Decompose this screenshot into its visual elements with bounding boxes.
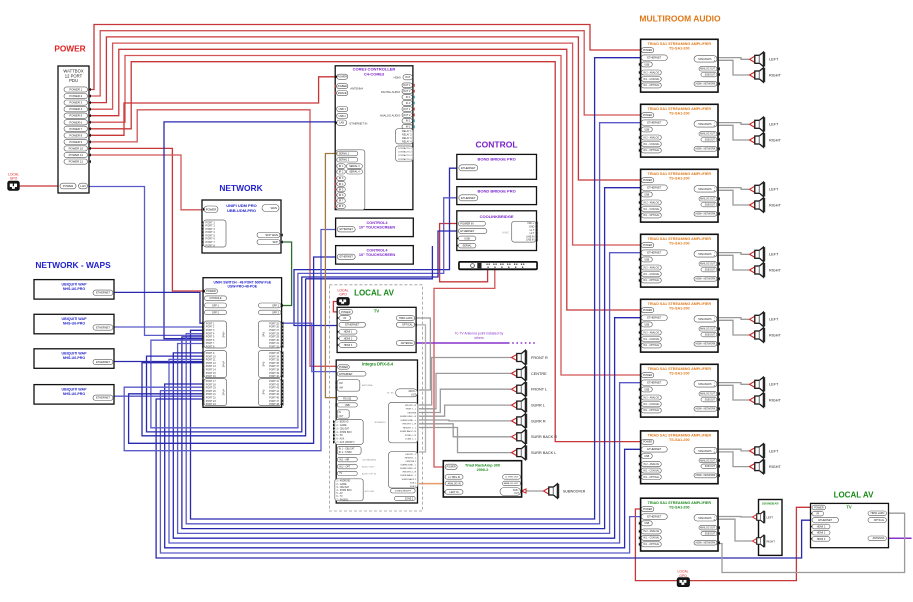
svg-text:TRIAD SA1 STREAMING AMPLIFIER: TRIAD SA1 STREAMING AMPLIFIER — [648, 501, 712, 505]
svg-text:HDMI 1: HDMI 1 — [344, 331, 353, 334]
wire power WattBox port 6 to amp 6 — [88, 56, 641, 376]
svg-text:3 - CBL/SAT: 3 - CBL/SAT — [336, 486, 349, 489]
wire speaker amp 8 to soundbar right — [718, 519, 752, 541]
svg-text:UBIQUITI WAP: UBIQUITI WAP — [62, 282, 88, 286]
wire network switch to amp 1 ethernet — [191, 58, 641, 519]
svg-text:ETHERNET: ETHERNET — [96, 325, 110, 329]
svg-text:SPEAKERS: SPEAKERS — [698, 58, 712, 61]
svg-text:IN 1 - OPTICAL: IN 1 - OPTICAL — [643, 409, 660, 412]
wire speaker Integra to FRONT R — [419, 358, 511, 406]
svg-text:HDMI - NETWORK: HDMI - NETWORK — [696, 344, 716, 346]
svg-text:IR 7: IR 7 — [339, 200, 344, 203]
svg-text:IN 1 - OPTICAL: IN 1 - OPTICAL — [643, 149, 660, 152]
svg-text:SOUNDBAR: SOUNDBAR — [762, 502, 780, 506]
svg-text:POWER 11: POWER 11 — [69, 153, 84, 157]
wire speaker Integra to SURR L — [419, 405, 511, 416]
svg-text:NETWORK - WAPS: NETWORK - WAPS — [35, 260, 111, 270]
svg-text:TRIAD SA1 STREAMING AMPLIFIER: TRIAD SA1 STREAMING AMPLIFIER — [648, 367, 712, 371]
svg-text:5 - PC: 5 - PC — [336, 435, 343, 437]
svg-text:FM: FM — [339, 382, 342, 385]
svg-text:AUDIO ONLY: AUDIO ONLY — [362, 466, 375, 469]
svg-text:IR 4: IR 4 — [339, 183, 344, 186]
svg-text:OUT 1: OUT 1 — [403, 108, 411, 111]
wire speaker amp 6 right — [718, 385, 749, 400]
svg-text:HDMI - NETWORK: HDMI - NETWORK — [696, 84, 716, 86]
amplifier Triad TS-SA1-200 number 1 — [641, 39, 718, 92]
svg-text:PoE: PoE — [262, 390, 266, 395]
wire network WAP 2 to switch — [113, 326, 204, 328]
svg-text:IN 1 - COAXIAL: IN 1 - COAXIAL — [643, 273, 660, 276]
wire network switch to amp 5 ethernet — [173, 318, 640, 539]
Integra zone out — [394, 496, 415, 500]
svg-text:HDMI 1: HDMI 1 — [817, 525, 826, 528]
wire network switch to amp 6 ethernet — [169, 359, 641, 543]
speaker amp 5 LEFT — [750, 312, 766, 326]
wire power WattBox port 9 to Integra receiver — [88, 110, 338, 367]
svg-text:GPO: GPO — [679, 574, 687, 578]
svg-text:SUB OUT: SUB OUT — [705, 533, 716, 535]
svg-text:TS-SA1-200: TS-SA1-200 — [669, 371, 690, 375]
svg-text:2 - GAME: 2 - GAME — [336, 424, 347, 427]
svg-text:2000-2: 2000-2 — [477, 468, 489, 472]
svg-text:CBL/SAT(AES): CBL/SAT(AES) — [362, 459, 376, 462]
wire speaker Integra to SURR R — [419, 419, 511, 422]
svg-text:others: others — [474, 336, 484, 340]
svg-text:TV: TV — [339, 473, 342, 475]
svg-text:LAN: LAN — [80, 184, 85, 188]
amplifier Triad TS-SA1-200 number 4 — [641, 234, 718, 287]
svg-text:ANALOG OUT: ANALOG OUT — [700, 263, 716, 266]
svg-text:IN 1 - AIR: IN 1 - AIR — [339, 458, 349, 461]
svg-text:OUT 1: OUT 1 — [403, 84, 411, 87]
svg-text:HVAC: HVAC — [503, 232, 510, 235]
svg-text:IR 6: IR 6 — [339, 194, 344, 197]
svg-text:USB: USB — [644, 522, 649, 525]
svg-text:ZONE 2: ZONE 2 — [405, 498, 414, 500]
svg-text:Integra DRX-8.4: Integra DRX-8.4 — [362, 362, 394, 367]
svg-text:PORT 24: PORT 24 — [206, 403, 217, 406]
svg-text:1 - ANDROID: 1 - ANDROID — [336, 480, 350, 483]
svg-text:AUDIO OPT IN: AUDIO OPT IN — [362, 472, 377, 475]
wire serial Core3 to Integra RS-232 — [325, 154, 337, 398]
wire speaker amp 2 right — [718, 125, 749, 140]
svg-text:HEIGHT 1 - R: HEIGHT 1 - R — [403, 424, 417, 426]
svg-text:ETHERNET: ETHERNET — [647, 381, 661, 385]
svg-text:POWER 9: POWER 9 — [69, 140, 82, 144]
svg-text:PORT 8: PORT 8 — [206, 346, 215, 349]
svg-text:CONTACTS 4: CONTACTS 4 — [398, 158, 412, 161]
svg-text:HDMI 2: HDMI 2 — [344, 337, 353, 340]
svg-text:FRONT L: FRONT L — [531, 388, 547, 392]
wire power Local GPO to WattBox — [19, 185, 60, 187]
svg-text:SUB OUT: SUB OUT — [705, 466, 716, 468]
svg-text:SUB OUT: SUB OUT — [705, 205, 716, 207]
switch port block right 41-48 — [259, 379, 282, 406]
svg-text:RELAY 1: RELAY 1 — [402, 130, 412, 133]
wire power Local GPO to TV — [333, 302, 339, 312]
svg-text:TV: TV — [846, 505, 852, 510]
svg-text:LOCAL AV: LOCAL AV — [354, 289, 395, 298]
svg-text:ETHERNET: ETHERNET — [647, 56, 661, 60]
svg-text:+PoE: +PoE — [222, 331, 226, 338]
svg-text:AUX LINE: AUX LINE — [365, 490, 375, 493]
svg-text:POWER 7: POWER 7 — [69, 127, 82, 131]
svg-text:ETHERNET: ETHERNET — [647, 251, 661, 255]
svg-text:OUT: OUT — [411, 393, 417, 396]
svg-text:SUB -: SUB - — [513, 490, 519, 492]
svg-text:HDMI: HDMI — [394, 76, 401, 80]
svg-text:BOND BRIDGE PRO: BOND BRIDGE PRO — [477, 189, 515, 194]
Integra height out pill — [391, 489, 416, 493]
switch port block right 33-40 — [259, 351, 282, 378]
svg-text:HDMI - NETWORK: HDMI - NETWORK — [696, 279, 716, 281]
svg-text:SUB OUT: SUB OUT — [705, 270, 716, 272]
svg-text:PoE: PoE — [262, 362, 266, 367]
wire power WattBox port 11 to router — [88, 155, 205, 210]
speaker FRONT L — [512, 382, 528, 396]
TV middle Local AV — [337, 307, 416, 352]
svg-text:SFP: SFP — [273, 240, 279, 244]
svg-text:SUB 1: SUB 1 — [410, 482, 417, 484]
svg-text:ANTENNA: ANTENNA — [401, 342, 413, 345]
svg-text:IR 1: IR 1 — [339, 165, 344, 168]
svg-text:WAN: WAN — [271, 206, 277, 210]
wire power WattBox port 4 to amp 4 — [88, 43, 641, 245]
svg-text:GPO: GPO — [339, 292, 347, 296]
svg-text:SPEAKERS: SPEAKERS — [698, 450, 712, 453]
wire speaker amp 4 left — [718, 253, 749, 255]
svg-text:SPEAKERS: SPEAKERS — [698, 318, 712, 321]
wire power Local GPO to TV bottom-right — [689, 507, 811, 580]
wire HDMI eARC TV bottom-right to amp 8 — [718, 513, 905, 572]
svg-text:IN 1: IN 1 — [406, 120, 411, 123]
svg-text:OPTICAL: OPTICAL — [874, 519, 885, 522]
svg-text:HEIGHT 2 - R: HEIGHT 2 - R — [403, 472, 417, 474]
wire HDMI ARC TV to Integra main out — [415, 318, 430, 390]
svg-text:FRONT - R: FRONT - R — [405, 405, 416, 407]
svg-text:SURROUND - L: SURROUND - L — [400, 420, 417, 422]
speaker amp 3 RIGHT — [750, 198, 766, 212]
svg-text:6 - TV: 6 - TV — [336, 496, 343, 498]
svg-text:PORT 16: PORT 16 — [206, 375, 217, 378]
svg-text:TRIAD SA1 STREAMING AMPLIFIER: TRIAD SA1 STREAMING AMPLIFIER — [648, 302, 712, 306]
svg-text:HDMI - NETWORK: HDMI - NETWORK — [696, 475, 716, 477]
svg-text:POWER: POWER — [206, 290, 216, 293]
svg-text:+PoE: +PoE — [222, 389, 226, 396]
svg-text:IN 2 - ANALOG: IN 2 - ANALOG — [643, 396, 659, 399]
svg-text:SFP 2: SFP 2 — [272, 311, 280, 314]
svg-text:RIGHT: RIGHT — [769, 138, 781, 142]
svg-text:RIGHT: RIGHT — [769, 333, 781, 337]
svg-text:IN 2 - ANALOG: IN 2 - ANALOG — [643, 331, 659, 334]
svg-text:IR: IR — [817, 513, 820, 516]
speaker SURR R — [512, 414, 528, 428]
svg-text:CONTROL4: CONTROL4 — [367, 249, 389, 253]
svg-text:RIGHT: RIGHT — [767, 539, 776, 543]
svg-text:2 - GAME: 2 - GAME — [336, 483, 347, 486]
svg-text:TS-SA1-200: TS-SA1-200 — [669, 505, 690, 509]
svg-text:ETHERNET: ETHERNET — [339, 256, 353, 259]
wire speaker amp 7 right — [718, 452, 749, 467]
svg-text:USB: USB — [644, 63, 649, 66]
wire optical TV to Integra — [415, 325, 426, 452]
Integra analog input block — [335, 479, 363, 501]
svg-text:IN 1 - OPTICAL: IN 1 - OPTICAL — [643, 279, 660, 282]
Control4 touchscreen 2 — [336, 246, 414, 265]
svg-text:SURR BACK 2: SURR BACK 2 — [402, 478, 417, 481]
receiver Integra DRX 8.4 — [336, 360, 417, 503]
svg-text:POWER: POWER — [643, 179, 652, 182]
svg-text:POWER IN: POWER IN — [460, 222, 473, 226]
wire speaker amp 5 left — [718, 318, 749, 320]
svg-text:5 - AV: 5 - AV — [336, 492, 343, 495]
speaker amp 2 LEFT — [750, 117, 766, 131]
svg-text:SFP 2: SFP 2 — [212, 311, 220, 314]
wire power strip outlet to Triad RackAmp — [434, 268, 495, 467]
dashed border LOCAL AV — [329, 285, 422, 511]
speaker amp 2 RIGHT — [750, 133, 766, 147]
wire power WattBox port 3 to amp 3 — [88, 37, 641, 180]
svg-text:IN 2 - STRM: IN 2 - STRM — [339, 452, 352, 454]
svg-text:7 - PHONO: 7 - PHONO — [336, 499, 348, 501]
svg-text:POWER 10: POWER 10 — [69, 147, 84, 151]
svg-text:ANALOG OUT: ANALOG OUT — [700, 527, 716, 530]
svg-text:POWER: POWER — [643, 374, 652, 377]
svg-text:LEFT: LEFT — [769, 449, 779, 453]
speaker amp 7 LEFT — [750, 444, 766, 458]
wire network CooLinkBridge to switch — [147, 231, 459, 432]
svg-text:OUT: OUT — [514, 493, 519, 495]
svg-text:IN 2: IN 2 — [406, 126, 411, 129]
wire power strip outlet to CooLinkBridge — [440, 224, 488, 282]
svg-text:SURROUND - R: SURROUND - R — [400, 468, 417, 470]
svg-text:USB 2: USB 2 — [339, 115, 347, 118]
svg-text:IN 1 - CBL/SAT: IN 1 - CBL/SAT — [339, 448, 355, 451]
switch port block right 25-32 — [259, 321, 282, 348]
svg-text:UBIQUITI WAP: UBIQUITI WAP — [62, 317, 88, 321]
Bond Bridge Pro 2 — [457, 187, 537, 205]
wire network switch to amp 7 ethernet — [165, 384, 641, 548]
svg-text:ZONE2-HEIGHT: ZONE2-HEIGHT — [395, 491, 412, 493]
svg-text:TV: TV — [374, 309, 380, 314]
svg-text:SUB 2: SUB 2 — [410, 486, 417, 488]
svg-text:OPTICAL: OPTICAL — [402, 324, 413, 327]
svg-text:RIGHT: RIGHT — [769, 268, 781, 272]
svg-text:SPEAKERS: SPEAKERS — [374, 421, 386, 424]
svg-text:IN 1 - OPTICAL: IN 1 - OPTICAL — [643, 543, 660, 546]
wire power WattBox port 10 to switch — [88, 148, 205, 291]
svg-text:IN 1 - COAXIAL: IN 1 - COAXIAL — [643, 403, 660, 406]
svg-text:IN 1 - OPTICAL: IN 1 - OPTICAL — [643, 344, 660, 347]
wire network switch to TV bottom-right ethernet — [156, 399, 811, 558]
Integra HDMI input block — [335, 420, 363, 445]
svg-text:ETHERNET: ETHERNET — [461, 166, 476, 170]
svg-text:POWER: POWER — [63, 184, 74, 188]
svg-text:POWER: POWER — [341, 311, 351, 314]
svg-text:POWER 2: POWER 2 — [69, 94, 82, 98]
svg-text:ZIGBEE: ZIGBEE — [338, 85, 348, 88]
wire network switch to amp 2 ethernet — [186, 123, 640, 524]
svg-text:OUT: OUT — [405, 76, 411, 79]
svg-text:ANTENNA: ANTENNA — [362, 384, 373, 387]
svg-text:RIGHT: RIGHT — [769, 73, 781, 77]
svg-text:IN 1: IN 1 — [406, 96, 411, 99]
svg-text:SPEAKERS: SPEAKERS — [698, 517, 712, 520]
svg-text:TS-SA1-200: TS-SA1-200 — [669, 46, 690, 50]
switch port block left 9-16 — [204, 351, 227, 378]
rack power strip — [459, 262, 537, 269]
svg-text:COAX 1 - L: COAX 1 - L — [405, 438, 417, 441]
svg-text:10" TOUCHSCREEN: 10" TOUCHSCREEN — [359, 253, 396, 257]
speaker CENTRE — [512, 366, 528, 380]
wire speaker Integra to FRONT L — [419, 389, 511, 412]
svg-text:IN 2 - ANALOG: IN 2 - ANALOG — [643, 201, 659, 204]
svg-text:IN 2 - ANALOG: IN 2 - ANALOG — [643, 71, 659, 74]
svg-text:GPO: GPO — [10, 177, 18, 181]
svg-text:SUB OUT: SUB OUT — [705, 140, 716, 142]
svg-text:L1 TRIG OUT: L1 TRIG OUT — [505, 477, 519, 479]
wire network switch to amp 4 ethernet — [178, 253, 641, 534]
speaker amp 6 LEFT — [750, 377, 766, 391]
svg-text:POWER 12: POWER 12 — [69, 160, 84, 164]
svg-text:RIGHT: RIGHT — [769, 398, 781, 402]
wire network touchscreen 1 to switch — [124, 230, 337, 451]
speaker amp 1 RIGHT — [750, 68, 766, 82]
svg-text:LEFT: LEFT — [769, 253, 779, 257]
WAP 1 Ubiquiti access point — [34, 280, 114, 300]
svg-text:LEFT: LEFT — [769, 58, 779, 62]
TV bottom-right Local AV — [811, 503, 889, 547]
svg-text:PORT 40: PORT 40 — [269, 375, 280, 378]
svg-text:SUBWOOFER: SUBWOOFER — [563, 489, 586, 493]
svg-text:SURROUND - R: SURROUND - R — [400, 416, 417, 418]
svg-text:HDMI - NETWORK: HDMI - NETWORK — [696, 543, 716, 545]
svg-text:NHS-U6-PRO: NHS-U6-PRO — [63, 356, 86, 360]
svg-text:TRIAD SA1 STREAMING AMPLIFIER: TRIAD SA1 STREAMING AMPLIFIER — [648, 107, 712, 111]
wire power WattBox port 1 to amp 1 — [88, 25, 641, 90]
svg-text:USB: USB — [464, 236, 470, 240]
svg-text:3 - CBL/SAT: 3 - CBL/SAT — [336, 427, 349, 430]
svg-text:LINE IN: LINE IN — [526, 239, 535, 242]
svg-text:IN 1 - OPTICAL: IN 1 - OPTICAL — [643, 84, 660, 87]
svg-text:CONSOLE: CONSOLE — [209, 297, 222, 300]
svg-text:ETHERNET: ETHERNET — [339, 373, 353, 376]
svg-text:ANALOG OUT: ANALOG OUT — [700, 393, 716, 396]
wire network Core3 LAN to switch port — [164, 122, 337, 339]
svg-text:ETHERNET: ETHERNET — [345, 323, 359, 327]
svg-text:POWER: POWER — [206, 207, 217, 211]
svg-text:LEFT IN: LEFT IN — [450, 491, 459, 494]
svg-text:ZWAVE: ZWAVE — [338, 92, 347, 95]
svg-text:POWER: POWER — [643, 441, 652, 444]
svg-text:TS-SA1-200: TS-SA1-200 — [669, 176, 690, 180]
svg-text:SURR BACK L: SURR BACK L — [531, 451, 556, 455]
speaker amp 3 LEFT — [750, 182, 766, 196]
svg-text:SERIAL 1: SERIAL 1 — [339, 152, 350, 155]
svg-text:TS-SA1-200: TS-SA1-200 — [669, 306, 690, 310]
svg-text:USB: USB — [644, 323, 649, 326]
svg-text:SPEAKERS: SPEAKERS — [698, 123, 712, 126]
wire speaker amp 3 right — [718, 190, 749, 205]
svg-text:ETHERNET IN: ETHERNET IN — [350, 121, 368, 125]
svg-text:IR 8: IR 8 — [339, 205, 344, 208]
svg-text:ETHERNET: ETHERNET — [460, 229, 474, 233]
svg-text:POWER 3: POWER 3 — [69, 101, 82, 105]
svg-text:SERIAL: SERIAL — [462, 244, 472, 248]
svg-text:ETHERNET: ETHERNET — [647, 447, 661, 451]
speaker amp 1 LEFT — [750, 52, 766, 66]
svg-text:USB: USB — [644, 455, 649, 458]
svg-text:HDMI - NETWORK: HDMI - NETWORK — [696, 214, 716, 216]
wire antenna TV to TV antenna point — [415, 342, 508, 344]
wire power Local GPO to amp 8 — [635, 509, 677, 581]
svg-text:TRIAD SA1 STREAMING AMPLIFIER: TRIAD SA1 STREAMING AMPLIFIER — [648, 42, 712, 46]
svg-text:TS-SA1-200: TS-SA1-200 — [669, 111, 690, 115]
WattBox 12 Port PDU — [58, 66, 89, 193]
speaker SURR BACK L — [512, 445, 528, 459]
svg-text:HDMI 3: HDMI 3 — [344, 344, 353, 347]
Core3 contacts block — [396, 146, 413, 161]
svg-text:UBB-UDM-PRO: UBB-UDM-PRO — [227, 208, 256, 213]
svg-text:CONTROL4: CONTROL4 — [367, 221, 389, 225]
amplifier Triad TS-SA1-200 number 8 — [641, 498, 718, 551]
svg-text:PDU: PDU — [69, 78, 78, 83]
svg-text:MULTIROOM AUDIO: MULTIROOM AUDIO — [639, 14, 721, 24]
svg-text:ANTENNA: ANTENNA — [872, 537, 884, 540]
amplifier Triad TS-SA1-200 number 2 — [641, 104, 718, 157]
svg-text:SUB OUT: SUB OUT — [705, 400, 716, 402]
amplifier Triad TS-SA1-200 number 3 — [641, 169, 718, 222]
svg-text:ETHERNET: ETHERNET — [96, 291, 110, 295]
svg-text:IN 2 - ANALOG: IN 2 - ANALOG — [643, 266, 659, 269]
svg-text:POWER: POWER — [643, 508, 652, 511]
speaker amp 6 RIGHT — [750, 393, 766, 407]
svg-text:NHS-U6-PRO: NHS-U6-PRO — [63, 322, 86, 326]
amplifier Triad RackAmp 300 — [443, 461, 521, 497]
wire speaker Integra to SURR BACK R — [419, 424, 511, 437]
svg-text:C4-CORE3: C4-CORE3 — [364, 71, 385, 76]
Control4 touchscreen 1 — [336, 218, 414, 237]
svg-text:SURR BACK - L: SURR BACK - L — [400, 474, 417, 477]
wire SFP router to switch — [281, 242, 292, 306]
svg-text:LOCAL AV: LOCAL AV — [834, 491, 875, 500]
Integra main HDMI out — [396, 389, 418, 397]
svg-text:POWER 5: POWER 5 — [69, 114, 82, 118]
wire network touchscreen 2 to switch — [129, 257, 338, 443]
svg-text:ETHERNET: ETHERNET — [818, 518, 832, 522]
svg-text:SERIAL 3: SERIAL 3 — [349, 165, 360, 168]
svg-text:OUT: OUT — [339, 416, 344, 418]
svg-text:ETHERNET: ETHERNET — [96, 396, 110, 400]
svg-text:RELAY 4: RELAY 4 — [402, 141, 412, 144]
svg-text:CENTRE: CENTRE — [407, 412, 417, 414]
svg-text:IN 2: IN 2 — [406, 102, 411, 105]
svg-text:UBIQUITI WAP: UBIQUITI WAP — [62, 352, 88, 356]
soundbar box — [759, 500, 783, 556]
svg-text:CENTRE: CENTRE — [531, 372, 547, 376]
svg-text:SERIAL 4: SERIAL 4 — [349, 171, 360, 174]
svg-text:IN 1 - COAXIAL: IN 1 - COAXIAL — [643, 338, 660, 341]
Integra tuner block — [337, 380, 360, 392]
svg-text:SFP WAN: SFP WAN — [265, 233, 278, 237]
svg-text:IN 2 - ANALOG: IN 2 - ANALOG — [643, 530, 659, 533]
speaker amp 5 RIGHT — [750, 328, 766, 342]
svg-text:POWER: POWER — [54, 44, 85, 54]
svg-text:Triad RackAmp 300: Triad RackAmp 300 — [465, 463, 500, 467]
wire power WattBox port 2 to amp 2 — [88, 31, 641, 115]
svg-text:SPEAKERS: SPEAKERS — [698, 383, 712, 386]
svg-text:ANALOG OUT: ANALOG OUT — [700, 328, 716, 331]
